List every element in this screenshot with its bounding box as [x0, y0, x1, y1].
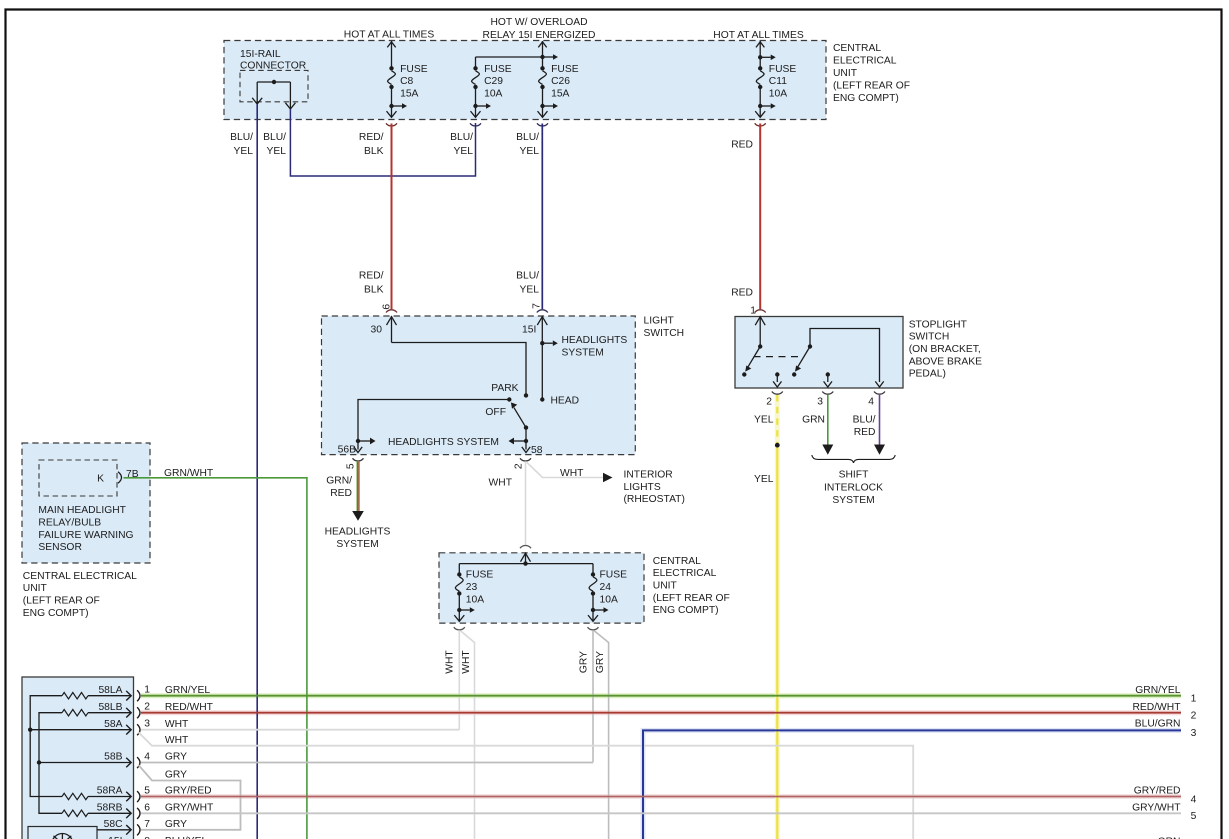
pin 6 GRY/WHT: [97, 802, 214, 819]
wire 30 to PARK contact: [392, 343, 529, 398]
label HEADLIGHTS SYSTEM (below arrow): [325, 526, 391, 549]
svg-text:BLU/: BLU/: [516, 132, 539, 143]
wire halo glows: [141, 395, 1181, 839]
svg-text:15I-RAIL: 15I-RAIL: [240, 49, 281, 60]
svg-text:HEAD: HEAD: [551, 396, 580, 407]
pin 2 RED/WHT: [98, 702, 213, 719]
connector under fuse 23: [454, 627, 465, 630]
label RED (lower): [731, 287, 753, 298]
wire GRN/RED from pin 56B: [357, 461, 359, 511]
svg-text:SYSTEM: SYSTEM: [562, 347, 604, 358]
arrow to headlights system: [352, 511, 364, 521]
wire row 3b WHT long: [139, 732, 914, 839]
label WHT (row 3b): [165, 735, 189, 746]
svg-text:YEL: YEL: [754, 474, 774, 485]
svg-text:LIGHTS: LIGHTS: [624, 482, 661, 493]
svg-text:7: 7: [532, 303, 543, 309]
wire GRY fuse24 to row 4: [592, 630, 594, 762]
bus wire A (58LA/58A/58RA): [28, 696, 62, 797]
CEU entry arrow and internal bus: [459, 553, 593, 566]
svg-text:2: 2: [766, 397, 772, 408]
connector under fuse C26: [537, 123, 548, 126]
connector pin 7 (light switch top): [532, 303, 548, 313]
svg-text:GRN: GRN: [802, 415, 825, 426]
svg-text:ELECTRICAL: ELECTRICAL: [833, 56, 897, 67]
svg-text:STOPLIGHT: STOPLIGHT: [909, 319, 968, 330]
pin 8 BLU/YEL (partially visible): [108, 836, 207, 839]
svg-text:C26: C26: [551, 76, 570, 87]
svg-text:3: 3: [817, 397, 823, 408]
svg-text:BLU/: BLU/: [263, 132, 286, 143]
svg-text:1: 1: [750, 306, 756, 317]
svg-text:PARK: PARK: [491, 383, 518, 394]
svg-text:GRY: GRY: [165, 752, 187, 763]
svg-text:1: 1: [1191, 694, 1197, 705]
label GRN/YEL (right) + net 1: [1135, 685, 1196, 705]
stoplight switch pole 2: [808, 329, 880, 383]
svg-text:2: 2: [144, 702, 150, 713]
svg-text:4: 4: [1191, 794, 1197, 805]
wire row 4b GRY loop to pin 7: [139, 765, 241, 830]
svg-text:5: 5: [144, 786, 150, 797]
wire GRN to shift interlock: [822, 395, 833, 455]
pin 4 GRY: [104, 752, 187, 769]
connector pin 5 (below 56B): [346, 458, 364, 469]
label GRY (row 4b): [165, 770, 187, 781]
label BLU/YEL (right pin): [263, 132, 286, 157]
svg-text:FUSE: FUSE: [400, 64, 428, 75]
svg-text:ENG COMPT): ENG COMPT): [833, 93, 899, 104]
svg-text:GRN/WHT: GRN/WHT: [164, 468, 214, 479]
label GRN: [802, 415, 825, 426]
resistor row 58LB: [62, 710, 130, 716]
svg-text:3: 3: [1191, 728, 1197, 739]
label SHIFT INTERLOCK SYSTEM: [824, 469, 883, 506]
svg-text:UNIT: UNIT: [653, 581, 678, 592]
wire BLU/GRN row 3: [643, 730, 1181, 839]
svg-text:58LA: 58LA: [98, 685, 122, 696]
svg-text:RED/: RED/: [359, 270, 384, 281]
svg-text:K: K: [97, 474, 104, 485]
fuse C11 10A: [755, 41, 796, 117]
label CENTRAL ELECTRICAL UNIT (top right): [833, 43, 910, 104]
label LIGHT SWITCH: [644, 316, 685, 339]
central electrical unit box (top): [224, 41, 826, 120]
label GRY/RED (right) + net 4: [1134, 786, 1197, 806]
contact to pin 3: [824, 372, 832, 387]
svg-text:INTERLOCK: INTERLOCK: [824, 482, 883, 493]
connector 15I-RAIL (inner dashed box): [240, 49, 308, 102]
pin right of 15I-rail connector: [285, 82, 295, 109]
svg-text:RELAY 15I ENERGIZED: RELAY 15I ENERGIZED: [483, 30, 596, 41]
label CENTRAL ELECTRICAL UNIT (middle right): [653, 556, 730, 616]
svg-text:UNIT: UNIT: [23, 583, 48, 594]
wire RED/BLK from fuse C8 to light switch pin 6: [391, 124, 393, 310]
svg-text:4: 4: [144, 752, 150, 763]
wire WHT fuse23 second branch: [461, 631, 475, 839]
svg-text:GRN/: GRN/: [326, 475, 352, 486]
wire row 3 WHT: [141, 729, 459, 731]
pin 15I entry arrow: [522, 317, 547, 400]
wire row 58C: [97, 829, 130, 831]
svg-text:GRY/RED: GRY/RED: [165, 786, 212, 797]
label WHT WHT (rotated): [445, 650, 472, 674]
svg-text:WHT: WHT: [445, 650, 456, 674]
svg-text:SHIFT: SHIFT: [839, 469, 869, 480]
svg-text:FAILURE WARNING: FAILURE WARNING: [38, 530, 133, 541]
label RED/BLK (lower): [359, 270, 384, 295]
svg-text:4: 4: [868, 397, 874, 408]
wire row 58B: [62, 762, 130, 764]
wire YEL dashed segment: [776, 395, 778, 443]
mechanical link (dashed): [754, 356, 800, 358]
wire GRY fuse24 second branch: [594, 631, 608, 839]
pin left of 15I-rail connector: [252, 82, 262, 104]
svg-text:10A: 10A: [600, 595, 618, 606]
svg-text:GRY: GRY: [595, 651, 606, 673]
connector under fuse C11: [755, 123, 766, 126]
svg-text:BLU/: BLU/: [450, 132, 473, 143]
svg-text:CENTRAL ELECTRICAL: CENTRAL ELECTRICAL: [23, 571, 137, 582]
stoplight switch pole 1: [755, 317, 765, 349]
node HOT W/ OVERLOAD RELAY 15I ENERGIZED: [483, 17, 596, 41]
svg-text:SENSOR: SENSOR: [38, 542, 82, 553]
wire row 6 GRY/WHT: [141, 812, 1181, 814]
light switch box: [322, 316, 636, 455]
svg-text:CONNECTOR: CONNECTOR: [240, 60, 306, 71]
switch lever (OFF position): [511, 402, 528, 429]
svg-text:FUSE: FUSE: [769, 64, 797, 75]
svg-text:FUSE: FUSE: [466, 570, 494, 581]
wire BLU/YEL left (15I-rail to bottom): [256, 104, 258, 839]
svg-text:24: 24: [600, 582, 612, 593]
svg-text:ENG COMPT): ENG COMPT): [23, 608, 89, 619]
svg-text:ELECTRICAL: ELECTRICAL: [653, 568, 717, 579]
wire BLU/YEL from fuse C26 to light switch pin 7: [541, 124, 543, 310]
label RED (upper): [731, 140, 753, 151]
pin 30 entry arrow: [371, 317, 397, 343]
label RED/WHT (right) + net 2: [1132, 702, 1196, 722]
wire RED from fuse C11 to stoplight switch pin 1: [759, 124, 761, 310]
wire YEL solid to bottom: [776, 448, 778, 839]
label WHT (pin 58 wire): [489, 478, 513, 489]
svg-text:15I: 15I: [522, 324, 536, 335]
svg-text:RED/WHT: RED/WHT: [1132, 702, 1181, 713]
arrow INTERIOR LIGHTS (RHEOSTAT): [603, 469, 685, 505]
label GRY/WHT (right) + net 5: [1132, 802, 1197, 822]
label BLU/RED: [853, 415, 876, 438]
svg-text:58C: 58C: [104, 819, 123, 830]
resistor row 58RB: [62, 810, 130, 816]
label YEL (upper): [754, 415, 774, 426]
svg-text:RED/WHT: RED/WHT: [165, 702, 214, 713]
connector pin 7B: [118, 469, 139, 483]
wire WHT fuse23 to row 3: [458, 630, 460, 730]
pin 5 GRY/RED: [97, 786, 212, 803]
svg-text:PEDAL): PEDAL): [909, 369, 946, 380]
connector pin 2 (stoplight bottom): [766, 392, 783, 408]
wire BLU/YEL from C29 to 15I-rail right pin: [290, 109, 475, 176]
svg-text:15A: 15A: [551, 89, 569, 100]
resistor row 58RA: [62, 793, 130, 799]
svg-text:(LEFT REAR OF: (LEFT REAR OF: [833, 80, 910, 91]
svg-text:ABOVE BRAKE: ABOVE BRAKE: [909, 356, 982, 367]
svg-text:WHT: WHT: [165, 719, 189, 730]
label GRY GRY (rotated): [578, 651, 605, 673]
fuse C8 15A: [387, 41, 428, 117]
svg-text:HEADLIGHTS: HEADLIGHTS: [562, 335, 628, 346]
svg-text:BLU/: BLU/: [516, 270, 539, 281]
node OFF contact + wire to 56B: [358, 397, 511, 449]
label WHT (interior lights branch): [560, 468, 584, 479]
label RED/BLK (upper): [359, 132, 384, 157]
connector pin 4 (stoplight bottom): [868, 392, 885, 408]
brace shift interlock: [812, 455, 895, 463]
svg-text:30: 30: [371, 325, 383, 336]
svg-text:6: 6: [382, 304, 393, 310]
connector under fuse C8: [386, 123, 397, 126]
connector pin 3 (stoplight bottom): [817, 392, 833, 408]
wire WHT branch to interior lights: [527, 463, 603, 478]
connector pin 1 (stoplight top): [750, 306, 765, 317]
svg-text:GRY/RED: GRY/RED: [1134, 786, 1181, 797]
svg-text:3: 3: [144, 719, 150, 730]
lever 1: [742, 347, 760, 377]
svg-text:YEL: YEL: [754, 415, 774, 426]
connector pin 6 (light switch top): [382, 304, 397, 313]
svg-text:(LEFT REAR OF: (LEFT REAR OF: [23, 596, 100, 607]
svg-text:MAIN HEADLIGHT: MAIN HEADLIGHT: [38, 505, 126, 516]
svg-text:ENG COMPT): ENG COMPT): [653, 605, 719, 616]
wire row 58A: [62, 729, 130, 731]
connector pin 2 (below 58): [514, 458, 532, 469]
wire row 4 GRY: [141, 762, 593, 764]
wire C29-C26 bus: [476, 56, 543, 58]
wire WHT from pin 58 down to central electrical unit: [525, 461, 527, 545]
label GRN (partial, bottom right): [1158, 836, 1181, 839]
contact to pin 2: [773, 372, 781, 387]
svg-text:SWITCH: SWITCH: [644, 328, 685, 339]
instrument cluster box (bottom left): [22, 677, 134, 839]
svg-text:INTERIOR: INTERIOR: [624, 469, 673, 480]
svg-text:7: 7: [144, 819, 150, 830]
node HOT AT ALL TIMES (left): [344, 30, 435, 41]
wire GRN/WHT from relay to bottom: [124, 478, 307, 839]
svg-text:LIGHT: LIGHT: [644, 316, 675, 327]
svg-text:SWITCH: SWITCH: [909, 332, 950, 343]
svg-text:CENTRAL: CENTRAL: [833, 43, 881, 54]
svg-text:FUSE: FUSE: [600, 570, 628, 581]
svg-text:C11: C11: [769, 76, 787, 87]
svg-text:C29: C29: [484, 76, 503, 87]
pin 58 exit: [522, 445, 543, 456]
label GRN/RED: [326, 475, 352, 499]
svg-text:GRN/YEL: GRN/YEL: [165, 685, 210, 696]
svg-text:SYSTEM: SYSTEM: [336, 539, 378, 550]
node HEADLIGHTS SYSTEM (15I branch): [540, 335, 627, 358]
svg-text:(LEFT REAR OF: (LEFT REAR OF: [653, 593, 730, 604]
svg-text:SYSTEM: SYSTEM: [832, 495, 874, 506]
node HEADLIGHTS SYSTEM (bottom, arrows both sides): [356, 437, 528, 448]
wire BLU/RED to shift interlock: [874, 395, 885, 455]
svg-text:FUSE: FUSE: [551, 64, 579, 75]
svg-text:YEL: YEL: [520, 285, 540, 296]
svg-text:(ON BRACKET,: (ON BRACKET,: [909, 344, 981, 355]
svg-text:RED: RED: [854, 427, 876, 438]
svg-text:10A: 10A: [769, 89, 787, 100]
label CENTRAL ELECTRICAL UNIT (left): [23, 571, 137, 619]
fuse C26 15A: [538, 41, 579, 117]
svg-text:56B: 56B: [338, 445, 356, 456]
main headlight relay outer box: [22, 443, 150, 563]
pin 7 GRY: [104, 819, 188, 836]
svg-text:1: 1: [144, 685, 150, 696]
pin 4 exit arrow: [875, 381, 883, 387]
label MAIN HEADLIGHT RELAY/BULB FAILURE WARNING SENSOR: [38, 505, 133, 553]
svg-text:58RA: 58RA: [97, 786, 123, 797]
svg-text:5: 5: [1191, 811, 1197, 822]
svg-text:58: 58: [531, 445, 543, 456]
node HOT AT ALL TIMES (right): [713, 30, 804, 41]
svg-text:HOT AT ALL TIMES: HOT AT ALL TIMES: [344, 30, 435, 41]
lamp symbol box: [28, 827, 97, 839]
svg-text:58B: 58B: [104, 752, 122, 763]
svg-text:HEADLIGHTS: HEADLIGHTS: [325, 526, 391, 537]
svg-text:15A: 15A: [400, 89, 418, 100]
resistor row 58LA: [62, 693, 130, 699]
pin 3 WHT: [104, 719, 189, 736]
svg-text:YEL: YEL: [454, 146, 474, 157]
label YEL (lower): [754, 474, 774, 485]
svg-text:BLU/: BLU/: [853, 415, 876, 426]
svg-text:RED: RED: [330, 488, 352, 499]
connector (light switch WHT into CEU): [520, 546, 531, 549]
svg-text:10A: 10A: [466, 595, 484, 606]
svg-text:HEADLIGHTS SYSTEM: HEADLIGHTS SYSTEM: [388, 437, 499, 448]
svg-text:58LB: 58LB: [98, 702, 122, 713]
wire lever pivot to pin 58: [525, 428, 527, 450]
svg-text:(RHEOSTAT): (RHEOSTAT): [624, 494, 685, 505]
label PARK: [491, 383, 518, 394]
label BLU/YEL (left pin): [230, 132, 253, 157]
central electrical unit box (middle): [439, 553, 644, 623]
svg-text:WHT: WHT: [560, 468, 584, 479]
wire row 5 GRY/RED: [141, 796, 1181, 798]
svg-text:GRY: GRY: [165, 819, 187, 830]
label BLU/YEL (C26 upper): [516, 132, 539, 157]
pin 1 GRN/YEL: [98, 685, 210, 702]
svg-text:RELAY/BULB: RELAY/BULB: [38, 518, 101, 529]
svg-text:RED: RED: [731, 287, 753, 298]
svg-text:GRY: GRY: [578, 651, 589, 673]
svg-text:YEL: YEL: [520, 146, 540, 157]
svg-text:BLK: BLK: [364, 146, 384, 157]
svg-text:WHT: WHT: [165, 735, 189, 746]
label BLU/GRN (right) + net 3: [1135, 718, 1197, 739]
svg-text:2: 2: [514, 463, 525, 469]
wire row 2 RED/WHT: [141, 712, 1181, 714]
node HEAD contact: [540, 396, 579, 407]
svg-text:C8: C8: [400, 76, 413, 87]
svg-text:GRY/WHT: GRY/WHT: [1132, 802, 1181, 813]
svg-text:GRN/YEL: GRN/YEL: [1135, 685, 1180, 696]
relay K inner box: [39, 460, 117, 496]
fuse 24 10A: [588, 564, 627, 622]
fuse C29 10A: [471, 57, 512, 117]
svg-text:YEL: YEL: [234, 146, 254, 157]
svg-text:GRY/WHT: GRY/WHT: [165, 803, 214, 814]
svg-text:58A: 58A: [104, 719, 122, 730]
wire row 1 GRN/YEL: [141, 695, 1181, 697]
junction on YEL wire: [775, 443, 780, 448]
svg-text:FUSE: FUSE: [484, 64, 512, 75]
svg-text:YEL: YEL: [267, 146, 287, 157]
svg-text:10A: 10A: [484, 89, 502, 100]
svg-text:2: 2: [1191, 711, 1197, 722]
svg-text:HOT AT ALL TIMES: HOT AT ALL TIMES: [713, 30, 804, 41]
label STOPLIGHT SWITCH (ON BRACKET, ABOVE BRAKE PEDAL): [909, 319, 982, 379]
svg-text:HOT W/ OVERLOAD: HOT W/ OVERLOAD: [490, 17, 587, 28]
lever 2: [792, 347, 810, 377]
svg-text:RED: RED: [731, 140, 753, 151]
pin 56B exit: [338, 445, 363, 456]
svg-text:GRY: GRY: [165, 770, 187, 781]
svg-text:BLU/GRN: BLU/GRN: [1135, 718, 1181, 729]
svg-text:BLK: BLK: [364, 285, 384, 296]
wire 15I-rail internal jumper: [257, 80, 290, 84]
stoplight switch box: [735, 317, 903, 389]
bus wire B (58LB/58B/58RB): [37, 713, 62, 814]
connector under fuse 24: [588, 627, 599, 630]
svg-text:58RB: 58RB: [97, 802, 123, 813]
svg-text:BLU/: BLU/: [230, 132, 253, 143]
svg-text:5: 5: [346, 463, 357, 469]
svg-text:OFF: OFF: [485, 407, 506, 418]
svg-text:6: 6: [144, 802, 150, 813]
label BLU/YEL (C26 lower): [516, 270, 539, 295]
svg-text:WHT: WHT: [461, 650, 472, 674]
svg-text:CENTRAL: CENTRAL: [653, 556, 701, 567]
fuse 23 10A: [454, 564, 493, 622]
label BLU/YEL (fuse C29 wire): [450, 132, 473, 157]
svg-text:WHT: WHT: [489, 478, 513, 489]
lamp bulb: [52, 834, 73, 839]
svg-text:RED/: RED/: [359, 132, 384, 143]
connector under fuse C29: [470, 123, 481, 126]
label GRN/WHT: [164, 468, 214, 479]
svg-text:23: 23: [466, 582, 478, 593]
svg-text:UNIT: UNIT: [833, 68, 858, 79]
